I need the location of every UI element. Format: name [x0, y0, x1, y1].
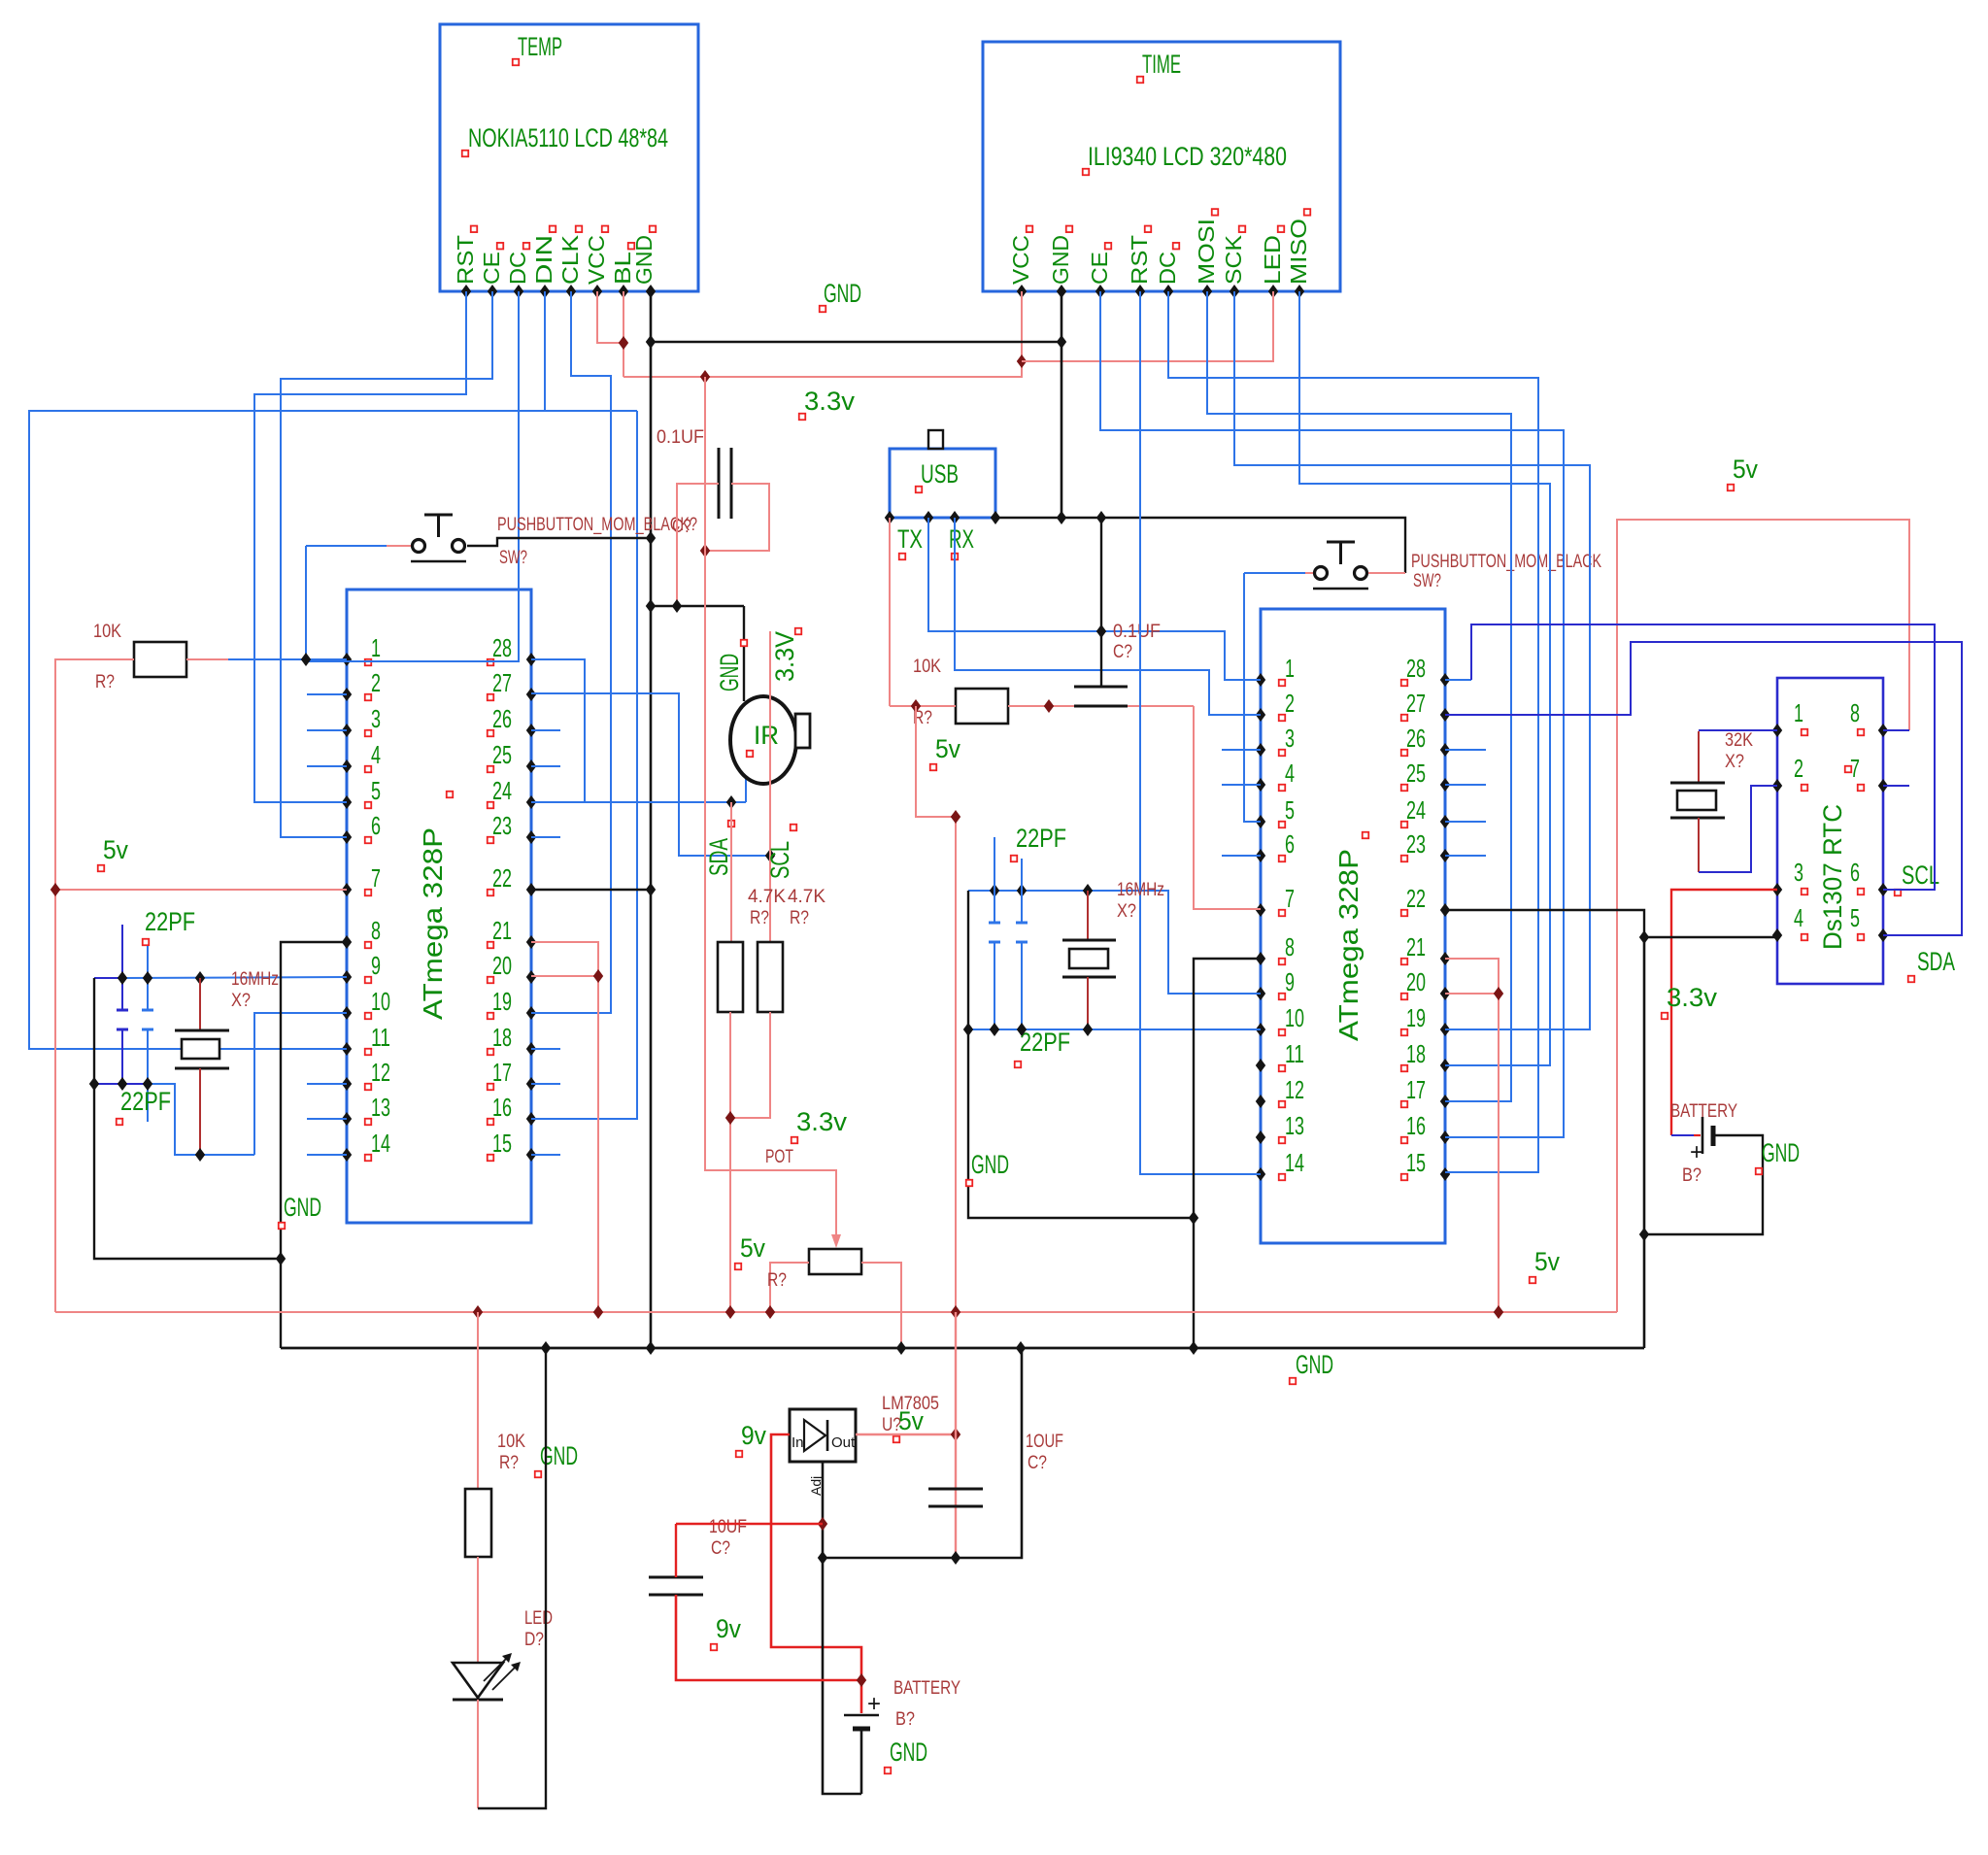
svg-text:1: 1 — [371, 633, 381, 662]
wire SW1 right to GND — [467, 538, 651, 546]
svg-text:GND: GND — [631, 235, 657, 285]
wire SW2 left to U2 pin5 — [1244, 572, 1305, 574]
wire R1 left 5v — [55, 659, 134, 1312]
junction GND bus — [896, 1341, 906, 1355]
svg-text:26: 26 — [492, 704, 512, 733]
svg-text:SCK: SCK — [1221, 234, 1246, 285]
U2 right stubs 26 25 24 23 — [1445, 749, 1486, 751]
svg-text:16MHz: 16MHz — [1117, 880, 1164, 900]
svg-text:3: 3 — [371, 704, 381, 733]
svg-text:10K: 10K — [913, 657, 941, 677]
junction xtal bottom — [195, 1148, 205, 1162]
IC U2 ATmega 328P (right) — [1261, 609, 1445, 1243]
wire GND row under C3 — [651, 605, 744, 607]
svg-text:15: 15 — [1406, 1148, 1426, 1177]
svg-text:CLK: CLK — [557, 234, 583, 285]
svg-text:Out: Out — [831, 1434, 856, 1451]
svg-text:Adj: Adj — [808, 1476, 824, 1496]
svg-text:23: 23 — [1406, 829, 1426, 859]
svg-text:10K: 10K — [93, 622, 121, 642]
junction 3.3v mid — [700, 544, 710, 557]
wire TEMP GND vertical — [650, 291, 653, 1348]
svg-text:9v: 9v — [741, 1421, 766, 1450]
wire TEMP DC down — [306, 291, 519, 661]
battery B2 9v — [844, 1714, 879, 1717]
resistor R1 10K — [134, 642, 186, 677]
junction c5 bot — [990, 1023, 999, 1036]
svg-text:TIME: TIME — [1142, 50, 1181, 79]
wire TIME RST to U2 pin14 — [1140, 291, 1261, 1174]
svg-text:GND: GND — [1048, 235, 1073, 285]
wire USB 5v left — [889, 518, 891, 706]
svg-text:1: 1 — [1794, 698, 1803, 727]
svg-text:Ds1307 RTC: Ds1307 RTC — [1818, 804, 1847, 950]
svg-text:5v: 5v — [935, 734, 960, 763]
svg-text:SDA: SDA — [704, 838, 733, 876]
wire XTAL1 top row to U1 pin9 — [94, 977, 122, 979]
wire U2 gnd frame — [968, 891, 1194, 1218]
junction cb1 — [89, 1077, 99, 1091]
svg-text:TEMP: TEMP — [518, 32, 562, 61]
wire IR GND — [743, 606, 745, 701]
wire XTAL2 top row to U2 pin9 — [968, 891, 1261, 994]
wire U2 pin22 to RTC pin4 gnd — [1445, 910, 1777, 937]
svg-text:PUSHBUTTON_MOM_BLACK?: PUSHBUTTON_MOM_BLACK? — [497, 515, 697, 535]
wire POT right GND — [861, 1263, 901, 1348]
wire to U2 pin7 — [1194, 706, 1261, 909]
resistor R5 10K — [956, 689, 1008, 724]
wire U1 pin27 to SCL row — [531, 693, 770, 856]
svg-text:17: 17 — [1406, 1075, 1426, 1104]
junction AVCC — [593, 969, 603, 983]
crystal X2 16MHz — [1087, 891, 1089, 940]
wire SDA drop — [730, 802, 732, 942]
wire TIME DC to U2 pin15 — [1168, 291, 1538, 1172]
capacitor C6 22PF — [1021, 859, 1023, 923]
junction c1 top — [118, 971, 127, 985]
junction 5v bus — [593, 1305, 603, 1319]
svg-text:6: 6 — [1850, 858, 1860, 887]
junction SCL column — [765, 849, 775, 862]
svg-text:17: 17 — [492, 1058, 512, 1087]
junction x2 top — [1083, 884, 1093, 897]
svg-text:B?: B? — [1682, 1165, 1702, 1186]
svg-text:23: 23 — [492, 811, 512, 840]
wire RTC pin7 stub — [1883, 785, 1909, 787]
junction gnd frame — [1189, 1211, 1198, 1225]
capacitor C4 0.1UF — [1100, 518, 1102, 687]
junction c6 bot — [1017, 1023, 1027, 1036]
svg-text:4.7K: 4.7K — [748, 887, 786, 907]
potentiometer R4 — [809, 1249, 861, 1274]
svg-text:GND: GND — [715, 654, 744, 691]
junction cb2 — [118, 1077, 127, 1091]
junction pin22 gnd — [646, 883, 656, 896]
wire X3 bottom to RTC pin2 — [1699, 786, 1777, 872]
svg-text:10: 10 — [1285, 1003, 1304, 1032]
wire B1 negative to GND — [1644, 1135, 1763, 1234]
svg-text:16: 16 — [1406, 1111, 1426, 1140]
junction TIME VCC node — [1017, 354, 1027, 368]
svg-text:SW?: SW? — [1413, 571, 1441, 591]
wire U4 out 5v — [856, 1433, 956, 1435]
svg-text:18: 18 — [492, 1023, 512, 1052]
svg-text:6: 6 — [371, 811, 381, 840]
wire TEMP CE to U1 pin6 — [281, 291, 492, 837]
U1 pin12-14 stubs — [307, 1083, 347, 1085]
svg-text:22PF: 22PF — [1020, 1028, 1070, 1057]
pushbutton SW2 — [1315, 567, 1328, 580]
svg-text:0.1UF: 0.1UF — [657, 427, 704, 448]
wire POT left 5v — [770, 1263, 809, 1312]
junction 5v x57 — [51, 883, 60, 896]
LED D1 — [453, 1663, 503, 1698]
wire 5v drop mid — [916, 706, 956, 1312]
junction b1 gnd — [1639, 1228, 1649, 1241]
svg-text:13: 13 — [371, 1093, 390, 1122]
svg-text:16: 16 — [492, 1093, 512, 1122]
U3 pins 1-8 — [1772, 724, 1782, 737]
svg-text:SW?: SW? — [499, 548, 527, 568]
junction GND bus — [1016, 1341, 1026, 1355]
svg-text:LED: LED — [1260, 235, 1285, 285]
U2 pins 1-28 — [1256, 673, 1265, 687]
svg-text:19: 19 — [492, 987, 512, 1016]
svg-text:NOKIA5110 LCD 48*84: NOKIA5110 LCD 48*84 — [468, 123, 668, 152]
junction gnd row u4 — [818, 1551, 827, 1565]
svg-text:21: 21 — [492, 916, 512, 945]
junction battery + — [857, 1673, 866, 1687]
svg-text:3.3v: 3.3v — [1667, 983, 1717, 1012]
junction gnd link — [276, 1252, 286, 1265]
5v bus — [55, 1311, 1617, 1313]
svg-text:5v: 5v — [740, 1233, 765, 1263]
TEMP LCD pins RST CE DC DIN CLK VCC BL GND — [461, 285, 471, 298]
svg-text:9: 9 — [1285, 967, 1295, 996]
battery B1 (RTC) — [1671, 1134, 1694, 1136]
wire C8 top — [676, 1523, 823, 1525]
junction GND bus — [1189, 1341, 1198, 1355]
svg-text:16MHz: 16MHz — [231, 969, 279, 990]
svg-text:LED: LED — [524, 1608, 553, 1629]
wire 3.3v vertical — [705, 377, 836, 1241]
capacitor C3 0.1UF — [718, 448, 721, 519]
wire xtal bottom to U1 pin10 — [254, 1013, 347, 1155]
svg-text:GND: GND — [971, 1150, 1009, 1179]
wire U1 pin24 row to IR — [531, 801, 746, 803]
svg-text:B?: B? — [895, 1709, 915, 1730]
junction u4 out — [951, 1428, 960, 1441]
junction c5 top — [990, 884, 999, 897]
wire R2 bottom — [729, 1012, 731, 1312]
svg-text:2: 2 — [371, 668, 381, 697]
svg-text:8: 8 — [371, 916, 381, 945]
svg-text:13: 13 — [1285, 1111, 1304, 1140]
U1 pins 1-28 — [342, 653, 352, 666]
svg-text:24: 24 — [492, 776, 512, 805]
wire TIME GND vertical — [1061, 291, 1063, 518]
wire RTC pin8 stub — [1883, 729, 1909, 731]
junction adj/cap — [818, 1517, 827, 1531]
U1 pin2-4 stubs — [307, 693, 347, 695]
svg-text:R?: R? — [499, 1453, 519, 1473]
capacitor C2 22PF (lower) — [147, 946, 149, 1010]
svg-text:TX: TX — [897, 524, 923, 554]
junction 5v bus — [1494, 1305, 1503, 1319]
junction GND bus left — [646, 335, 656, 349]
wire TIME SCK to U2 pin19 — [1234, 291, 1590, 1029]
junction usb-k1 — [1057, 511, 1066, 524]
wire USB right black — [995, 518, 1405, 573]
capacitor C7 10UF (out) — [928, 1488, 983, 1491]
svg-text:27: 27 — [1406, 689, 1426, 718]
wire cap bottom row — [94, 1083, 148, 1085]
wire 3.3v rail to TIME VCC — [623, 361, 1022, 377]
svg-text:ATmega 328P: ATmega 328P — [418, 827, 448, 1020]
wire R5 right — [1008, 705, 1194, 707]
wire IR bottom pin — [745, 777, 747, 802]
junction gnd row b — [672, 599, 682, 613]
svg-text:GND: GND — [284, 1193, 321, 1222]
svg-text:20: 20 — [492, 951, 512, 980]
svg-text:7: 7 — [1285, 884, 1295, 913]
wire R3 bottom — [730, 1012, 770, 1118]
wire X3 top to RTC pin1 — [1699, 729, 1777, 731]
junction SDA column — [726, 795, 736, 809]
svg-text:USB: USB — [921, 459, 959, 489]
wire TEMP RST to U1 pin5 — [254, 291, 466, 802]
junction r5r — [1044, 699, 1054, 713]
IC U1 ATmega 328P (left) — [347, 590, 531, 1223]
wire U4 adj down — [823, 1462, 861, 1794]
wire SW2 right — [1368, 572, 1405, 574]
svg-text:21: 21 — [1406, 932, 1426, 961]
svg-text:26: 26 — [1406, 724, 1426, 753]
svg-text:In: In — [792, 1434, 804, 1451]
junction GND bus — [541, 1341, 551, 1355]
junction 5v mid — [951, 810, 960, 824]
svg-text:D?: D? — [524, 1630, 544, 1650]
wire SCL net U2 pin28 to RTC pin6 — [1445, 679, 1471, 681]
wire TEMP BL down — [623, 291, 624, 377]
svg-text:DC: DC — [505, 252, 530, 285]
svg-text:5v: 5v — [1534, 1247, 1560, 1276]
svg-text:GND: GND — [1296, 1350, 1333, 1379]
wire U2 pin8 gnd — [1194, 959, 1261, 1348]
wire USB RX to U2 pin2 — [955, 518, 1261, 715]
wire XTAL2 bottom row to U2 pin10 — [968, 1029, 1261, 1030]
svg-text:R?: R? — [790, 908, 809, 928]
svg-text:DC: DC — [1155, 252, 1180, 285]
USB connector box — [890, 449, 995, 518]
U1 right stubs 26 25 23 18 17 15 — [531, 729, 560, 731]
wire SDA net U2 pin27 to RTC pin5 — [1445, 642, 1962, 935]
svg-text:5v: 5v — [103, 835, 128, 864]
wire U2 pins 21/20 loop — [1445, 959, 1499, 1312]
capacitor C1 22PF (upper) — [121, 925, 123, 1010]
svg-text:15: 15 — [492, 1129, 512, 1158]
wire C3 left to GND — [677, 484, 719, 606]
svg-text:27: 27 — [492, 668, 512, 697]
voltage regulator U4 LM7805 — [790, 1409, 856, 1462]
svg-text:3.3V: 3.3V — [770, 631, 799, 682]
svg-text:4: 4 — [1794, 903, 1803, 932]
svg-text:12: 12 — [371, 1058, 390, 1087]
svg-text:IR: IR — [754, 721, 779, 750]
svg-text:28: 28 — [492, 633, 512, 662]
wire TIME LED to VCC node — [1022, 291, 1273, 361]
svg-text:8: 8 — [1850, 698, 1860, 727]
svg-text:10UF: 10UF — [709, 1517, 747, 1537]
wire LED feed — [477, 1312, 479, 1489]
junction c4 cross — [1096, 624, 1106, 638]
svg-text:4: 4 — [1285, 759, 1295, 788]
svg-text:RST: RST — [1127, 235, 1152, 285]
svg-text:2: 2 — [1794, 754, 1803, 783]
svg-text:24: 24 — [1406, 795, 1426, 825]
U2 pin3-6 stubs — [1222, 749, 1261, 751]
junction cb3 — [143, 1077, 152, 1091]
svg-text:POT: POT — [765, 1147, 793, 1167]
wire gnd link caps — [94, 978, 281, 1259]
wire DIN branch right — [545, 410, 637, 412]
svg-text:BATTERY: BATTERY — [1670, 1101, 1737, 1122]
svg-text:12: 12 — [1285, 1075, 1304, 1104]
wire R6 to LED — [477, 1557, 479, 1663]
junction 5v bus — [473, 1305, 483, 1319]
svg-text:5: 5 — [1850, 903, 1860, 932]
junction pin1 node — [301, 653, 311, 666]
junction 5v bus — [725, 1305, 735, 1319]
svg-text:ILI9340 LCD 320*480: ILI9340 LCD 320*480 — [1088, 142, 1287, 171]
junction usb-k2 — [1096, 511, 1106, 524]
wire TIME VCC drop — [1021, 291, 1023, 361]
svg-text:C?: C? — [1028, 1453, 1047, 1473]
wire R5 left node — [890, 705, 956, 707]
svg-text:BATTERY: BATTERY — [893, 1678, 960, 1699]
pushbutton SW1 — [413, 540, 425, 553]
svg-text:ATmega 328P: ATmega 328P — [1333, 849, 1364, 1041]
svg-text:11: 11 — [1285, 1039, 1304, 1068]
svg-text:4: 4 — [371, 740, 381, 769]
capacitor C5 22PF — [994, 837, 995, 923]
wire R1 right to U1 pin1 — [186, 658, 228, 660]
junction gnd frame left — [963, 1023, 973, 1036]
svg-text:3.3v: 3.3v — [796, 1107, 847, 1136]
svg-text:CE: CE — [479, 252, 504, 285]
wire C3 right to 3.3v — [705, 484, 769, 551]
svg-text:5v: 5v — [898, 1406, 924, 1435]
svg-text:25: 25 — [1406, 759, 1426, 788]
junction rtc gnd — [1639, 930, 1649, 944]
wire TIME MISO to U2 pin18 — [1299, 291, 1550, 1065]
GND bus — [281, 1347, 1644, 1350]
svg-text:VCC: VCC — [1008, 235, 1033, 285]
svg-text:R?: R? — [767, 1270, 787, 1291]
svg-text:+: + — [1690, 1139, 1703, 1165]
junction c2 top — [143, 971, 152, 985]
svg-text:11: 11 — [371, 1023, 390, 1052]
wire C8 bottom — [676, 1595, 861, 1680]
svg-text:X?: X? — [1117, 901, 1136, 922]
svg-text:7: 7 — [371, 863, 381, 893]
junction 5v bus — [765, 1305, 775, 1319]
capacitor C8 100UF (in) — [649, 1576, 703, 1579]
svg-text:GND: GND — [824, 279, 861, 308]
wire TIME CE to U2 pin16 — [1100, 291, 1564, 1137]
svg-text:VCC: VCC — [584, 235, 609, 285]
svg-text:14: 14 — [371, 1129, 390, 1158]
svg-text:3: 3 — [1794, 858, 1803, 887]
wire TEMP VCC jog — [597, 291, 623, 343]
svg-text:6: 6 — [1285, 829, 1295, 859]
svg-text:5: 5 — [1285, 795, 1295, 825]
svg-text:PUSHBUTTON_MOM_BLACK: PUSHBUTTON_MOM_BLACK — [1411, 552, 1601, 572]
svg-text:22PF: 22PF — [120, 1087, 171, 1116]
wire 5v vertical to cap — [955, 1312, 957, 1558]
svg-text:R?: R? — [95, 672, 115, 692]
svg-text:MOSI: MOSI — [1194, 219, 1219, 285]
junction 3.3v at x726 — [700, 370, 710, 384]
svg-text:1OUF: 1OUF — [1026, 1432, 1063, 1452]
svg-text:SCL: SCL — [765, 841, 794, 879]
svg-text:2: 2 — [1285, 689, 1295, 718]
svg-text:20: 20 — [1406, 967, 1426, 996]
svg-text:0.1UF: 0.1UF — [1113, 622, 1161, 642]
wire 5v loop to RTC pin8 — [1617, 520, 1909, 1312]
svg-text:18: 18 — [1406, 1039, 1426, 1068]
junction GND bus — [646, 1341, 656, 1355]
svg-text:MISO: MISO — [1286, 219, 1311, 285]
wire U1 pin22 GND — [531, 889, 651, 891]
svg-text:8: 8 — [1285, 932, 1295, 961]
wire x656 DIN to U1 pin16 — [531, 411, 637, 1119]
svg-text:22: 22 — [1406, 884, 1426, 913]
junction GND bus right — [1057, 335, 1066, 349]
svg-text:9: 9 — [371, 951, 381, 980]
junction x2 bot — [1083, 1023, 1093, 1036]
junction r5l — [911, 699, 921, 713]
wire LED cathode to GND — [477, 1700, 479, 1808]
wire 5v to U1 pin7 — [55, 889, 347, 891]
wire USB TX to U2 pin1 — [928, 518, 1261, 680]
resistor R3 4.7K — [758, 942, 783, 1012]
USB pins TX RX — [885, 511, 894, 524]
svg-text:3: 3 — [1285, 724, 1295, 753]
TIME LCD pins VCC GND CE RST DC MOSI SCK LED MISO — [1017, 285, 1027, 298]
svg-text:9v: 9v — [716, 1614, 741, 1643]
wire TEMP CLK to U1 pin19 — [531, 291, 611, 1013]
junction gnd row a — [646, 599, 656, 613]
svg-text:5: 5 — [371, 776, 381, 805]
wire TIME MOSI to U2 pin17 — [1207, 291, 1511, 1101]
crystal X3 32K — [1698, 731, 1700, 783]
svg-text:28: 28 — [1406, 654, 1426, 683]
wire U1 pin28 to SDA row — [531, 659, 585, 802]
svg-text:C?: C? — [672, 517, 691, 537]
svg-text:CE: CE — [1087, 252, 1112, 285]
svg-text:32K: 32K — [1725, 730, 1753, 751]
ILI9340 LCD module (TIME display) — [983, 42, 1340, 291]
wire 3.3V IR line — [769, 631, 771, 942]
junction c6 top — [1017, 884, 1027, 897]
junction c7 bottom — [951, 1551, 960, 1565]
junction SW1 gnd — [646, 531, 656, 545]
wire GND top bus to TIME GND — [651, 341, 1061, 344]
wire U1 pin8 gnd — [281, 942, 347, 1348]
resistor R2 4.7K — [718, 942, 743, 1012]
svg-text:X?: X? — [1725, 752, 1744, 772]
